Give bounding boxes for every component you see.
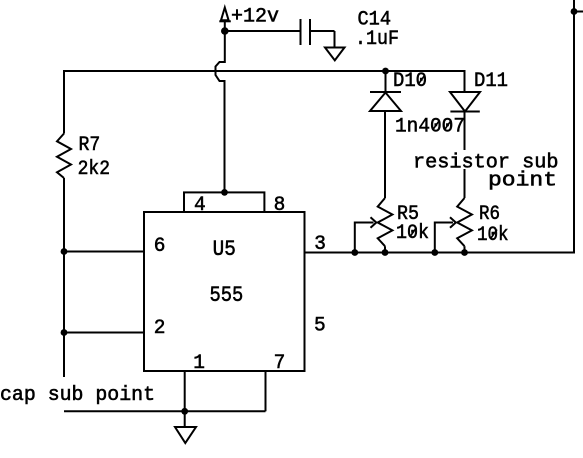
svg-text:+12v: +12v xyxy=(231,5,279,28)
svg-text:R6: R6 xyxy=(479,203,500,226)
svg-text:555: 555 xyxy=(210,283,244,308)
svg-text:4: 4 xyxy=(194,194,206,217)
svg-text:cap sub point: cap sub point xyxy=(0,384,155,407)
svg-text:D10: D10 xyxy=(393,70,427,93)
svg-text:U5: U5 xyxy=(213,237,236,262)
svg-text:2: 2 xyxy=(154,317,166,340)
svg-text:point: point xyxy=(488,170,557,193)
svg-text:2k2: 2k2 xyxy=(78,158,110,181)
svg-text:6: 6 xyxy=(154,235,166,258)
svg-text:5: 5 xyxy=(314,315,326,338)
svg-text:8: 8 xyxy=(274,194,286,217)
svg-text:1: 1 xyxy=(193,352,205,375)
svg-text:1n4007: 1n4007 xyxy=(395,116,465,139)
svg-text:D11: D11 xyxy=(474,70,508,93)
svg-text:R7: R7 xyxy=(79,134,101,157)
svg-text:3: 3 xyxy=(314,233,326,256)
svg-text:.1uF: .1uF xyxy=(355,28,399,51)
svg-text:7: 7 xyxy=(274,352,286,375)
